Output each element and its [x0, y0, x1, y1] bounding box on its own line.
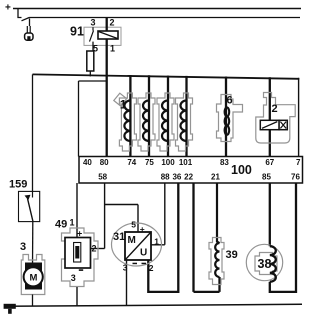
svg-text:+: + — [140, 224, 145, 234]
svg-text:1: 1 — [110, 44, 115, 54]
svg-text:100: 100 — [161, 158, 175, 167]
svg-text:2: 2 — [110, 18, 115, 28]
svg-text:91: 91 — [70, 25, 84, 39]
svg-text:3: 3 — [20, 241, 26, 253]
svg-text:100: 100 — [231, 163, 252, 177]
svg-text:1: 1 — [120, 97, 127, 111]
svg-text:74: 74 — [127, 158, 136, 167]
svg-text:21: 21 — [211, 172, 220, 181]
svg-text:75: 75 — [145, 158, 154, 167]
svg-text:1: 1 — [70, 218, 75, 228]
svg-text:22: 22 — [184, 172, 193, 181]
svg-text:31: 31 — [113, 231, 125, 243]
svg-text:3: 3 — [123, 263, 128, 273]
svg-text:2: 2 — [272, 103, 278, 115]
svg-text:101: 101 — [179, 158, 193, 167]
svg-text:6: 6 — [227, 95, 233, 107]
svg-text:88: 88 — [161, 172, 170, 181]
svg-text:3: 3 — [91, 18, 96, 28]
svg-text:7: 7 — [296, 158, 301, 167]
svg-text:1: 1 — [154, 237, 159, 247]
svg-text:M: M — [128, 235, 136, 246]
svg-text:U: U — [140, 248, 147, 259]
svg-text:+: + — [77, 229, 82, 239]
svg-text:2: 2 — [149, 263, 154, 273]
svg-text:83: 83 — [220, 158, 229, 167]
svg-text:36: 36 — [172, 172, 181, 181]
svg-text:+: + — [5, 3, 11, 14]
svg-text:49: 49 — [55, 219, 67, 231]
svg-text:76: 76 — [291, 172, 300, 181]
svg-text:M: M — [30, 272, 38, 283]
svg-text:159: 159 — [9, 179, 27, 191]
svg-text:58: 58 — [98, 172, 107, 181]
svg-text:2: 2 — [92, 243, 97, 253]
svg-text:5: 5 — [131, 219, 136, 229]
svg-text:67: 67 — [265, 158, 274, 167]
svg-text:38: 38 — [258, 257, 272, 271]
svg-text:39: 39 — [226, 249, 238, 261]
svg-text:85: 85 — [262, 172, 271, 181]
svg-text:3: 3 — [71, 273, 76, 283]
svg-text:80: 80 — [100, 158, 109, 167]
svg-text:40: 40 — [83, 158, 92, 167]
